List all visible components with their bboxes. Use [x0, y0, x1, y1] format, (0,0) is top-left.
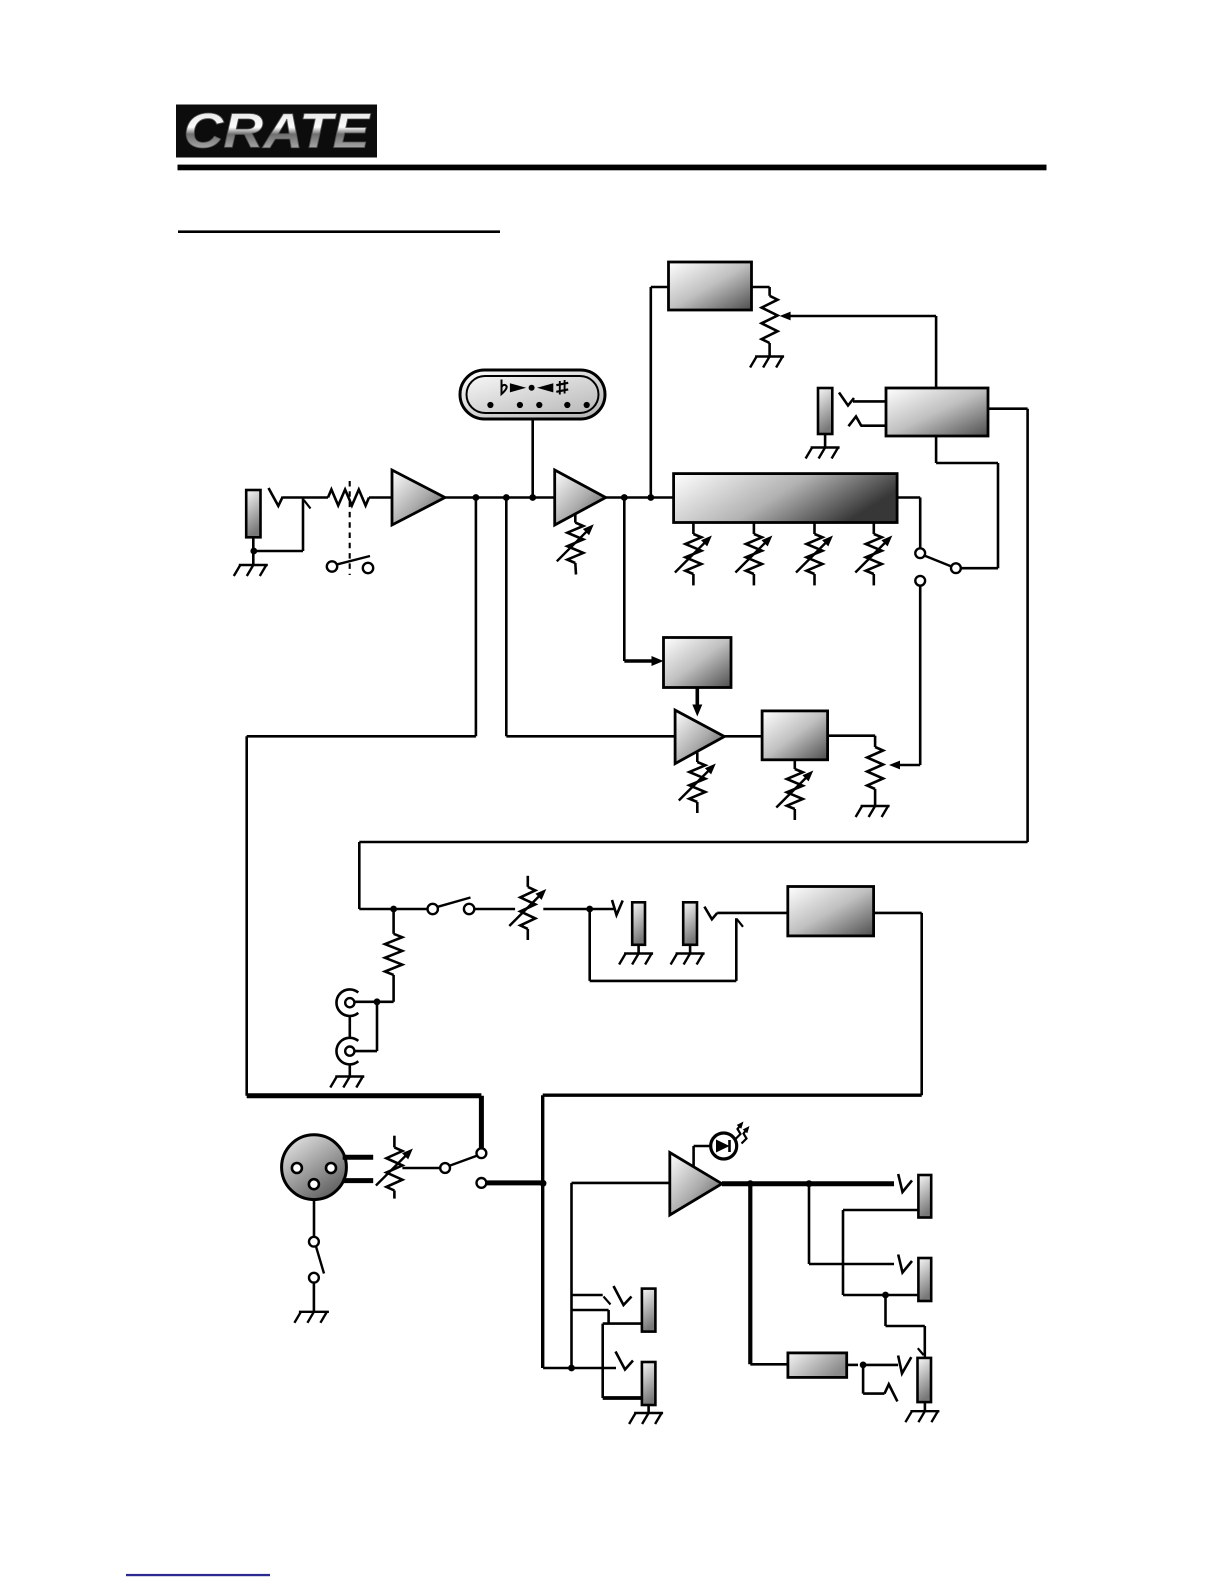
wire thick: [343, 1155, 374, 1160]
op-amp A1: [392, 470, 445, 525]
ground: [905, 1411, 939, 1422]
ground: [294, 1312, 329, 1323]
op-amp A3: [675, 710, 724, 764]
RCA jack J10: [336, 989, 358, 1016]
wire: [689, 945, 692, 954]
pot VR8: [776, 760, 813, 820]
jack J1 tip contact: [269, 488, 283, 506]
ground: [671, 954, 705, 965]
wire: [750, 1363, 788, 1366]
jack J7 contact: [898, 1174, 912, 1192]
wire bypass: [590, 909, 743, 981]
XLR connector J12: [282, 1135, 347, 1200]
ground: [619, 954, 653, 965]
node: [860, 1362, 867, 1369]
wire thick: [343, 1178, 374, 1183]
jack J1 ring contact: [254, 499, 311, 552]
title underline: [178, 230, 500, 233]
EQ block U4: [674, 474, 898, 523]
reverb jack J2: [818, 388, 832, 434]
switch S1: [327, 556, 373, 573]
jack J9 barb: [918, 1348, 924, 1355]
wire wiper: [780, 312, 937, 321]
input jack J1: [246, 490, 260, 537]
gain switch S1 link: [349, 481, 351, 575]
jack J2 contact a: [839, 393, 886, 406]
wire: [283, 496, 328, 499]
wire: [313, 1283, 316, 1312]
wire: [623, 498, 626, 662]
jack J6: [642, 1362, 656, 1405]
ground: [750, 357, 784, 368]
wire: [354, 1002, 377, 1051]
switch S5: [309, 1237, 324, 1283]
CRATE logo: [176, 105, 377, 159]
speaker jack J8: [918, 1258, 931, 1301]
node: [586, 906, 593, 913]
op-amp A2: [555, 470, 606, 525]
ground: [330, 1077, 364, 1088]
wire: [824, 434, 827, 447]
wire thick: [748, 1184, 752, 1365]
jack J5 contact: [614, 1286, 632, 1305]
jack J6 contact: [616, 1352, 634, 1370]
node: [473, 494, 480, 501]
wire: [924, 1402, 927, 1411]
wire: [651, 287, 669, 498]
ground: [856, 806, 890, 817]
wire reverb send loop: [359, 409, 1027, 909]
wire: [886, 1295, 925, 1357]
header rule: [178, 165, 1047, 171]
wire: [572, 1367, 617, 1370]
tuner display U1: [460, 370, 605, 419]
node: [568, 1365, 575, 1372]
EQ pot VR3: [675, 523, 712, 586]
wire: [863, 1365, 884, 1394]
node: [503, 494, 510, 501]
block U7: [788, 887, 874, 936]
wire: [863, 1364, 898, 1367]
wire: [843, 1294, 918, 1297]
RCA jack J11: [336, 1038, 358, 1065]
ground: [234, 565, 268, 576]
pot VR9: [867, 747, 883, 806]
wire: [252, 537, 255, 565]
wire thick: [247, 1096, 482, 1149]
EQ pot VR6: [855, 523, 892, 586]
wire: [717, 912, 788, 915]
wire: [348, 1016, 351, 1038]
pot VR10: [509, 876, 546, 940]
node: [250, 548, 257, 555]
wire: [637, 945, 640, 954]
wire: [359, 908, 430, 911]
wire: [506, 735, 675, 738]
arrow: [624, 656, 663, 666]
headphone jack J5: [642, 1289, 656, 1332]
speaker jack J7: [918, 1175, 931, 1218]
wire: [897, 498, 920, 549]
wire: [809, 1184, 894, 1264]
wire: [847, 1364, 858, 1367]
jack J4 contact: [704, 907, 717, 920]
node: [647, 494, 654, 501]
node: [621, 494, 628, 501]
EQ pot VR5: [796, 523, 833, 586]
wire: [647, 1405, 650, 1413]
wire: [828, 736, 876, 747]
node: [540, 1180, 547, 1187]
wire: [936, 436, 998, 568]
ext speaker jack J9: [918, 1358, 932, 1402]
wire main bus: [445, 496, 674, 499]
wire: [369, 496, 392, 499]
wire: [543, 1367, 571, 1370]
pot VR11: [376, 1136, 413, 1199]
LED D1: [694, 1122, 750, 1168]
wire: [543, 913, 922, 1368]
jack J2 contact b: [849, 417, 887, 427]
footer rule: [126, 1574, 270, 1576]
EQ pot VR4: [735, 523, 772, 586]
wire: [505, 498, 508, 737]
node: [390, 906, 397, 913]
wire: [531, 419, 534, 498]
wire: [889, 586, 920, 770]
resistor R2: [385, 909, 402, 1002]
wire: [474, 908, 515, 911]
wire thick speaker bus: [722, 1181, 894, 1186]
resistor R4: [788, 1353, 847, 1378]
jack J8 contact: [898, 1255, 912, 1273]
jack J9 contact: [898, 1356, 911, 1374]
power amp A4: [670, 1153, 722, 1216]
wire thick: [603, 1396, 642, 1400]
jack J3 contact: [612, 900, 623, 915]
switch S4: [440, 1148, 486, 1188]
wire: [572, 1183, 670, 1368]
wire thick: [486, 1180, 543, 1185]
FX return jack J4: [683, 902, 697, 945]
wire: [843, 1210, 918, 1295]
switch S3: [428, 898, 475, 915]
wire: [543, 908, 613, 911]
jack J5 feed: [572, 1295, 611, 1305]
jack J9 ring contact: [885, 1384, 898, 1401]
wire: [724, 735, 762, 738]
node: [374, 998, 381, 1005]
block U2: [669, 262, 752, 310]
ground: [629, 1413, 663, 1424]
wire: [935, 316, 938, 388]
wire: [354, 1000, 393, 1003]
pot VR7: [679, 753, 716, 814]
block U5: [664, 638, 732, 688]
node: [882, 1292, 889, 1299]
FX send jack J3: [632, 902, 645, 945]
switch S2: [915, 548, 961, 585]
svg-text:CRATE: CRATE: [184, 105, 371, 159]
pot VR2: [762, 296, 778, 356]
arrow: [692, 688, 702, 717]
gain pot VR1: [557, 514, 594, 575]
node: [529, 494, 536, 501]
block U3: [886, 388, 988, 436]
wire: [313, 1200, 316, 1237]
wire: [752, 287, 770, 296]
resistor R1: [328, 490, 369, 506]
wire preamp out: [247, 498, 476, 1096]
ground: [806, 448, 840, 459]
node: [747, 1180, 754, 1187]
node: [806, 1180, 813, 1187]
wire: [572, 1310, 642, 1398]
wire: [348, 1064, 351, 1076]
wire: [402, 1167, 440, 1170]
block U6: [762, 711, 828, 760]
